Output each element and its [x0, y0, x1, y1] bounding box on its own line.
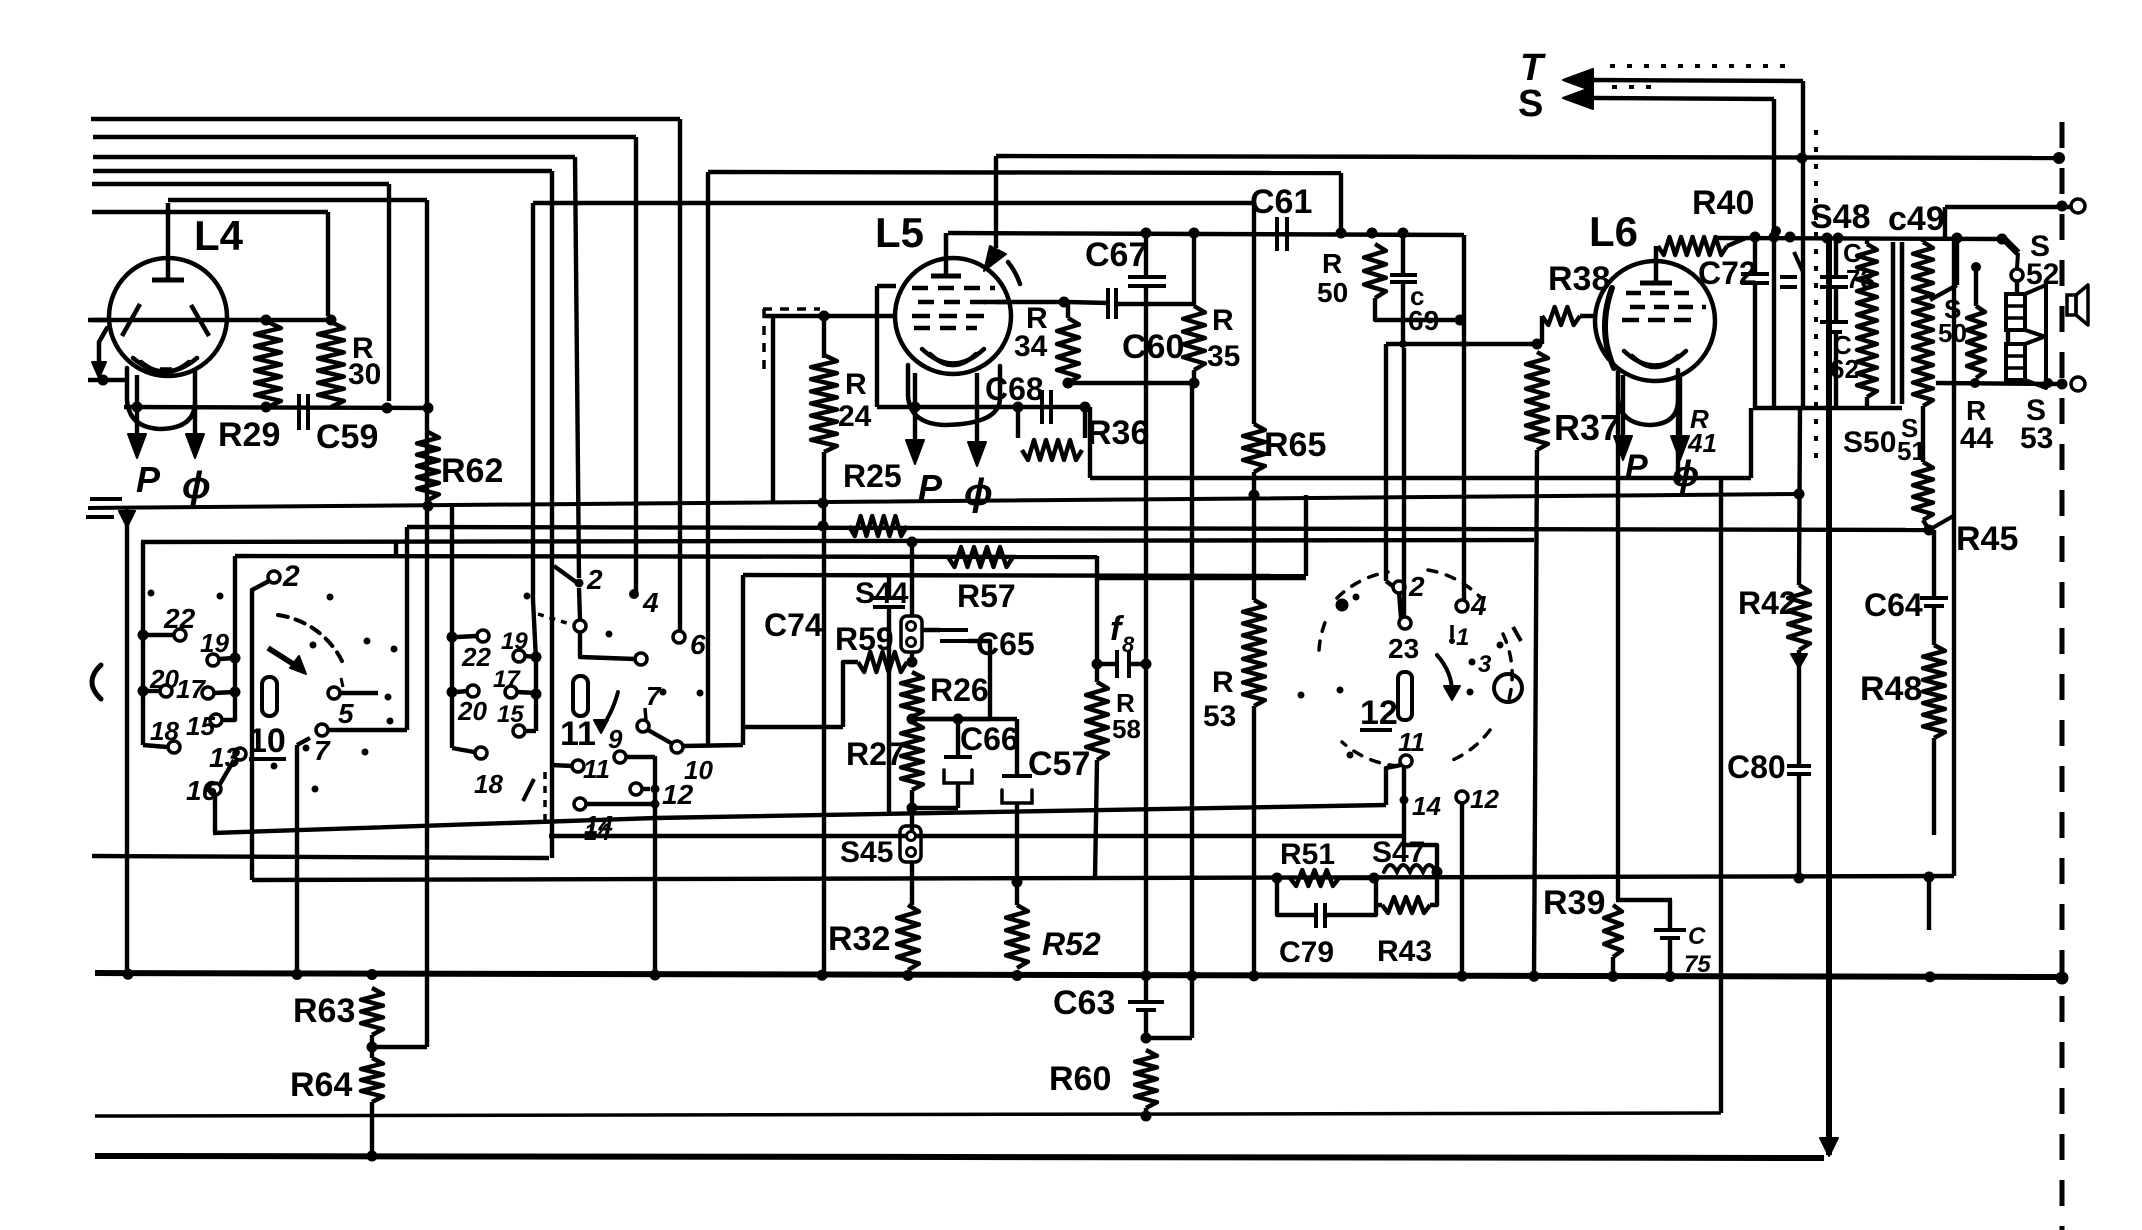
svg-text:S44: S44 [855, 577, 909, 610]
svg-text:S47: S47 [1372, 836, 1425, 869]
svg-text:6: 6 [690, 629, 706, 660]
svg-text:2: 2 [1408, 571, 1425, 602]
svg-text:41: 41 [1687, 428, 1717, 458]
svg-text:69: 69 [1408, 305, 1439, 336]
svg-text:ϕ: ϕ [1672, 453, 1699, 494]
svg-text:C68: C68 [985, 371, 1044, 407]
svg-text:20: 20 [149, 664, 179, 694]
svg-text:S45: S45 [840, 836, 893, 869]
svg-text:R60: R60 [1049, 1060, 1111, 1098]
svg-text:7: 7 [646, 681, 662, 711]
svg-text:58: 58 [1112, 714, 1141, 744]
svg-text:18: 18 [474, 769, 503, 799]
svg-text:24: 24 [838, 400, 872, 433]
svg-text:17: 17 [176, 674, 206, 704]
svg-text:11: 11 [560, 715, 596, 753]
svg-text:R40: R40 [1692, 184, 1754, 222]
svg-text:11: 11 [583, 754, 610, 784]
svg-text:R42: R42 [1738, 585, 1797, 621]
svg-text:50: 50 [1938, 318, 1967, 348]
svg-text:P: P [918, 467, 943, 508]
svg-text:19: 19 [200, 628, 229, 658]
svg-text:C74: C74 [764, 607, 823, 643]
svg-text:C72: C72 [1698, 255, 1757, 291]
svg-text:C66: C66 [960, 721, 1019, 757]
svg-text:7: 7 [314, 735, 331, 766]
svg-text:L5: L5 [875, 209, 924, 256]
svg-text:R29: R29 [218, 416, 280, 454]
svg-text:S50: S50 [1843, 426, 1896, 459]
svg-text:53: 53 [2020, 422, 2053, 455]
svg-text:R48: R48 [1860, 670, 1922, 708]
svg-text:4: 4 [642, 587, 659, 618]
svg-text:C: C [1688, 923, 1706, 950]
svg-text:62: 62 [1830, 354, 1859, 384]
svg-text:R62: R62 [441, 452, 503, 490]
svg-text:12: 12 [1360, 694, 1398, 732]
svg-text:L4: L4 [194, 212, 244, 259]
svg-text:13: 13 [209, 742, 241, 773]
svg-text:C65: C65 [976, 626, 1035, 662]
svg-text:1: 1 [1456, 624, 1469, 651]
svg-text:R27: R27 [846, 736, 905, 772]
svg-text:5: 5 [338, 698, 354, 729]
svg-text:C67: C67 [1085, 236, 1147, 274]
svg-text:R32: R32 [828, 920, 890, 958]
svg-text:14: 14 [1412, 791, 1441, 821]
svg-text:22: 22 [163, 603, 196, 634]
svg-text:R: R [845, 368, 867, 401]
svg-text:18: 18 [150, 716, 179, 746]
svg-text:12: 12 [662, 779, 694, 810]
svg-text:C63: C63 [1053, 984, 1115, 1022]
svg-text:R64: R64 [290, 1066, 352, 1104]
svg-text:ϕ: ϕ [964, 472, 993, 514]
svg-text:R: R [1212, 304, 1234, 337]
svg-text:50: 50 [1317, 277, 1348, 308]
svg-text:22: 22 [461, 642, 491, 672]
svg-text:15: 15 [497, 701, 524, 728]
svg-text:C64: C64 [1864, 587, 1923, 623]
svg-text:R59: R59 [835, 621, 894, 657]
svg-text:C61: C61 [1250, 183, 1312, 221]
svg-text:R36: R36 [1087, 414, 1149, 452]
svg-text:20: 20 [457, 696, 487, 726]
svg-text:53: 53 [1203, 700, 1236, 733]
svg-text:R63: R63 [293, 992, 355, 1030]
svg-text:R57: R57 [957, 578, 1016, 614]
svg-text:c49: c49 [1888, 200, 1945, 238]
svg-text:2: 2 [586, 564, 603, 595]
svg-text:34: 34 [1014, 330, 1048, 363]
svg-text:15: 15 [186, 711, 215, 741]
svg-text:P: P [136, 459, 161, 500]
svg-text:ϕ: ϕ [182, 465, 211, 507]
svg-text:23: 23 [1388, 633, 1419, 664]
svg-text:R: R [1212, 666, 1234, 699]
svg-text:C59: C59 [316, 418, 378, 456]
svg-text:S48: S48 [1810, 198, 1871, 236]
svg-text:R51: R51 [1280, 838, 1335, 871]
svg-text:R45: R45 [1956, 520, 2018, 558]
svg-text:19: 19 [501, 628, 528, 655]
svg-text:10: 10 [248, 722, 286, 760]
svg-text:R38: R38 [1548, 260, 1610, 298]
svg-text:P: P [1625, 448, 1648, 486]
svg-text:C80: C80 [1727, 749, 1786, 785]
svg-text:14: 14 [584, 819, 611, 846]
svg-text:9: 9 [608, 724, 623, 754]
svg-text:R52: R52 [1042, 926, 1101, 962]
svg-text:R39: R39 [1543, 884, 1605, 922]
svg-text:11: 11 [1398, 727, 1425, 757]
svg-text:75: 75 [1684, 951, 1711, 978]
svg-text:2: 2 [282, 560, 300, 593]
svg-text:R: R [1322, 248, 1342, 279]
svg-text:C60: C60 [1122, 328, 1184, 366]
svg-text:4: 4 [1470, 590, 1487, 621]
svg-text:R65: R65 [1264, 426, 1326, 464]
svg-text:R26: R26 [930, 672, 989, 708]
svg-text:44: 44 [1960, 422, 1994, 455]
svg-text:L6: L6 [1589, 208, 1638, 255]
svg-text:51: 51 [1897, 436, 1926, 466]
svg-text:R25: R25 [843, 458, 902, 494]
svg-text:12: 12 [1470, 784, 1499, 814]
svg-text:C57: C57 [1028, 745, 1090, 783]
svg-text:30: 30 [348, 358, 381, 391]
svg-text:S: S [1518, 83, 1543, 125]
svg-text:3: 3 [1478, 651, 1492, 678]
svg-text:17: 17 [493, 666, 521, 693]
svg-text:35: 35 [1207, 340, 1240, 373]
svg-text:R37: R37 [1554, 407, 1620, 448]
svg-text:C79: C79 [1279, 936, 1334, 969]
svg-text:R43: R43 [1377, 935, 1432, 968]
